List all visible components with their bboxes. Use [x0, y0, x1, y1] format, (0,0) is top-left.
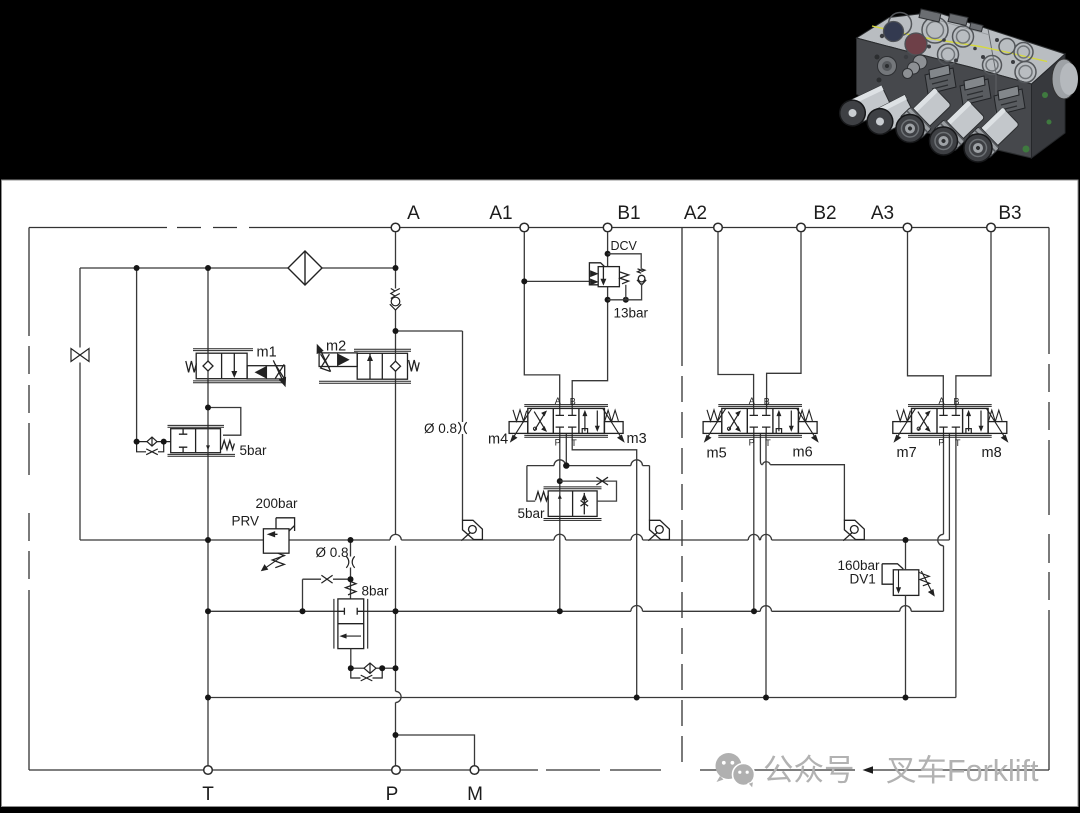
wire: 8bar pilot branch: [350, 540, 352, 599]
svg-text:m4: m4: [488, 432, 508, 448]
wire: DV1 connections: [905, 540, 907, 698]
port A: [391, 223, 400, 232]
8bar unloading valve: [334, 582, 368, 649]
svg-text:Ø 0.8: Ø 0.8: [316, 545, 349, 560]
junction (754,611.3): [751, 608, 757, 614]
PRV pressure relief valve 200bar: [262, 518, 295, 571]
valve m5/m6: [703, 396, 818, 448]
svg-text:M: M: [467, 784, 483, 805]
plain cylinder 1: [835, 85, 892, 130]
junction (905.5,540): [903, 537, 909, 543]
junction (625.8,299.8): [623, 297, 629, 303]
svg-text:P: P: [386, 784, 399, 805]
wire: filter supply line y=268: [80, 267, 396, 269]
check+restrictor combo (left): [137, 437, 171, 455]
svg-text:A2: A2: [684, 203, 707, 224]
flow arrow on bottom edge: [863, 766, 874, 773]
svg-text:A3: A3: [871, 203, 894, 224]
svg-text:13bar: 13bar: [614, 306, 649, 321]
valve m4/m3: [509, 396, 624, 448]
svg-text:m5: m5: [707, 446, 727, 462]
hop of P column over bus697: [396, 691, 402, 702]
junction (163.7,441.6): [161, 439, 167, 445]
main block top face: [857, 12, 1066, 84]
port A2: [714, 223, 723, 232]
border frame right edge: [1048, 228, 1050, 771]
bus: tank line y=697.5: [208, 697, 956, 699]
wire: A2 column: [718, 233, 754, 409]
port B2: [797, 223, 806, 232]
svg-text:DCV: DCV: [611, 239, 638, 253]
plain cylinder 2: [863, 95, 916, 139]
bus: pilot line y=540: [80, 539, 949, 541]
main block right face: [1032, 54, 1066, 158]
orifice 0.8 upper: [458, 422, 466, 434]
svg-text:m3: m3: [627, 431, 647, 447]
solenoid cartridge 2: [923, 98, 987, 161]
svg-text:m7: m7: [897, 445, 917, 461]
port P: [392, 766, 401, 775]
wire: M port branch: [396, 735, 475, 766]
wire: P column middle: [395, 331, 397, 766]
tag T1: [461, 520, 482, 540]
wire: m7/m8 T line: [955, 434, 957, 698]
wire: left drop x=80 with shutoff: [79, 268, 81, 540]
port M: [470, 766, 479, 775]
manual shutoff valve: [71, 349, 89, 362]
svg-text:5bar: 5bar: [518, 506, 546, 521]
junction (905.5,697.5): [903, 695, 909, 701]
front face washer: [878, 57, 897, 76]
junction (208,268): [205, 265, 211, 271]
wire: B1 column: [572, 233, 607, 409]
svg-text:m6: m6: [793, 445, 813, 461]
yellow marker line: [872, 26, 1047, 62]
svg-text:200bar: 200bar: [256, 496, 299, 511]
watermark: [716, 753, 1040, 789]
svg-text:公众号: 公众号: [763, 754, 855, 788]
junction (208,611.3): [205, 608, 211, 614]
junction (636.7,697.5): [634, 695, 640, 701]
pressure valve 5bar (center): [535, 477, 616, 520]
wire: 8bar left loop: [303, 579, 351, 611]
junction (350.5,540): [348, 537, 354, 543]
junction (350.5,579.2): [348, 576, 354, 582]
junction (566.3,465.6): [563, 462, 569, 468]
wire: DCV pilot line: [524, 280, 590, 282]
border frame top edge: [29, 227, 1049, 229]
right side cartridge: [1052, 59, 1076, 99]
wire: m7/m8 mid line: [948, 434, 950, 541]
front face fitting: [903, 55, 928, 79]
wire: orifice branch y=331: [396, 331, 463, 520]
junction (559.8,481.1): [557, 478, 563, 484]
pilot valve DCV: [589, 254, 646, 300]
solenoid cartridge 3: [958, 105, 1022, 168]
tag T3: [843, 520, 864, 540]
svg-text:T: T: [202, 784, 214, 805]
back edge connectors: [919, 9, 983, 32]
wire: 8bar valve bottom: [350, 649, 352, 669]
3D valve block render: [835, 9, 1078, 169]
port labels: [202, 203, 1021, 805]
svg-text:A: A: [407, 203, 420, 224]
svg-text:DV1: DV1: [850, 572, 876, 587]
svg-text:m1: m1: [257, 345, 277, 361]
junction (559.8,611.3): [557, 608, 563, 614]
tag T2: [648, 520, 669, 540]
wire: A/P column top: [395, 233, 397, 332]
wire: column x=136.6: [136, 268, 138, 442]
solenoid valve m2: [317, 345, 419, 383]
junction (607.6,299.8): [605, 297, 611, 303]
DV1 differential valve 160bar: [882, 564, 934, 596]
border frame bottom edge: [29, 769, 1049, 771]
svg-text:Ø 0.8: Ø 0.8: [424, 421, 457, 436]
port T: [204, 766, 213, 775]
small bores: [880, 34, 1015, 64]
section divider dashed line: [681, 228, 683, 341]
port B3: [987, 223, 996, 232]
junction (208,540): [205, 537, 211, 543]
svg-text:A1: A1: [489, 203, 512, 224]
junction (607.6,253.8): [605, 251, 611, 257]
wire: A3 column: [908, 233, 944, 409]
check valve on A column: [390, 289, 401, 311]
junction (395.5,331): [393, 328, 399, 334]
svg-text:m2: m2: [326, 339, 346, 355]
junction (208,407.5): [205, 405, 211, 411]
filter F1: [288, 251, 322, 285]
colored port plugs: [884, 22, 904, 42]
wire: m5/m6 mid branch to tag: [760, 434, 844, 521]
wire: B2 column: [767, 233, 801, 409]
restrictor on 8bar loop: [321, 575, 332, 583]
bus: supply line y=611.3: [208, 610, 944, 612]
svg-text:PRV: PRV: [232, 514, 260, 529]
junction (382.2,668.2): [379, 665, 385, 671]
port A1: [520, 223, 529, 232]
top face ports: [889, 13, 1037, 83]
junction (524.3,281.4): [521, 278, 527, 284]
port B1: [603, 223, 612, 232]
white drawing page: [2, 180, 1079, 807]
check+restrictor combo (8bar): [351, 663, 396, 681]
junction (395.5,268): [393, 265, 399, 271]
junction (766,697.5): [763, 695, 769, 701]
junction (302.5,611.3): [300, 608, 306, 614]
svg-text:B2: B2: [813, 203, 836, 224]
svg-text:B3: B3: [998, 203, 1021, 224]
solenoid valve m1: [186, 349, 286, 386]
solenoid connectors: [925, 65, 1025, 115]
wire: m1 to 5bar branch: [208, 408, 241, 436]
block joint lines: [988, 29, 996, 148]
main block front face: [857, 38, 1032, 158]
wire: m3 T-branch to tank bus: [572, 434, 637, 698]
port circles: [204, 223, 996, 774]
svg-text:5bar: 5bar: [240, 443, 268, 458]
svg-text:m8: m8: [982, 445, 1002, 461]
junction (350.8,668.2): [348, 665, 354, 671]
wire: m5/m6 T line: [765, 434, 767, 698]
wire: T column x=208: [207, 268, 209, 770]
svg-text:B1: B1: [617, 203, 640, 224]
wire: m7 P line: [943, 434, 945, 612]
junction (208,697.5): [205, 695, 211, 701]
pressure valve 5bar (left): [168, 425, 236, 456]
wire: m3 P line down: [559, 434, 561, 612]
solenoid cartridge 1: [890, 86, 954, 149]
port A3: [903, 223, 912, 232]
wire: m3 T line to bus: [565, 434, 567, 466]
green fittings: [1042, 92, 1048, 98]
bus: bridge channel y=465.6: [527, 465, 650, 467]
valve m7/m8: [893, 396, 1008, 448]
junction (136.6,268): [134, 265, 140, 271]
wire: m5 P line: [753, 434, 755, 612]
wire: A1 column: [524, 233, 559, 409]
border frame left edge: [28, 228, 30, 771]
junction (395.5,668.2): [393, 665, 399, 671]
orifice 0.8 lower: [346, 556, 354, 568]
wire: B3 column: [956, 233, 991, 409]
junction (136.6,441.6): [134, 439, 140, 445]
svg-text:8bar: 8bar: [362, 584, 390, 599]
junction (395.5,611.3): [393, 608, 399, 614]
junction (395.5,735): [393, 732, 399, 738]
svg-text:叉车Forklift: 叉车Forklift: [886, 754, 1039, 788]
